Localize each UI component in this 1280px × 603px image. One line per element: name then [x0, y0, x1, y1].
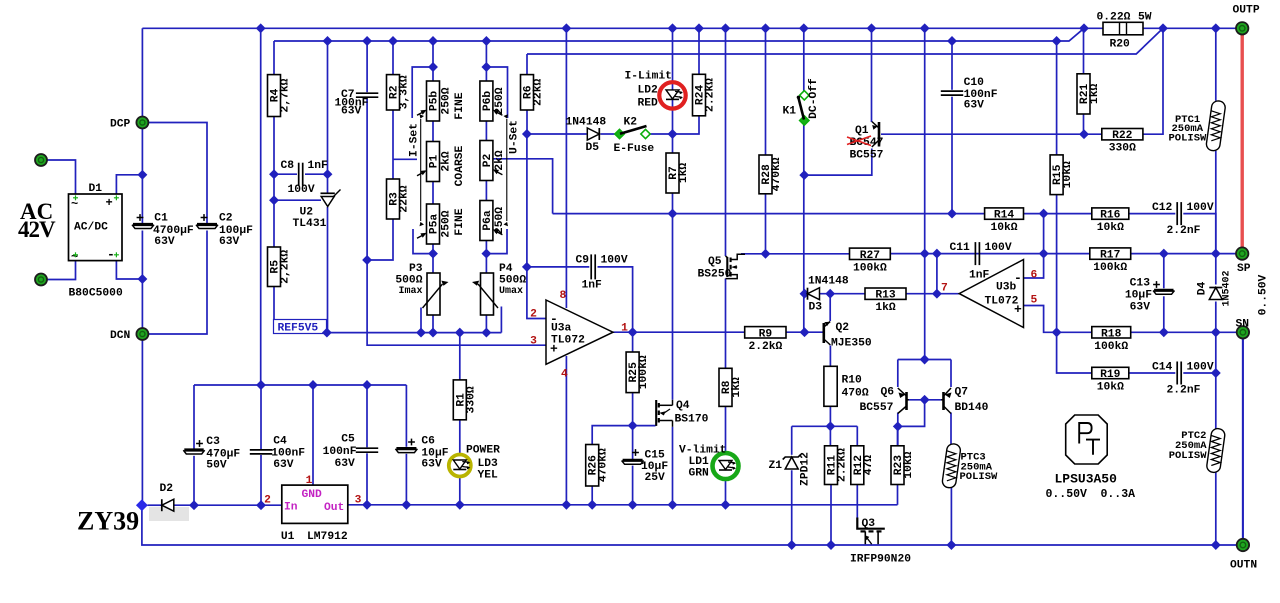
svg-text:I-Set: I-Set — [409, 123, 421, 157]
svg-text:DCN: DCN — [110, 330, 131, 342]
svg-text:2.2nF: 2.2nF — [1167, 385, 1201, 397]
svg-text:1kΩ: 1kΩ — [731, 377, 743, 398]
svg-text:0.22Ω: 0.22Ω — [1097, 12, 1131, 24]
svg-text:1N5402: 1N5402 — [1222, 270, 1233, 306]
svg-text:Imax: Imax — [398, 286, 422, 297]
svg-text:63V: 63V — [273, 459, 294, 471]
svg-text:4: 4 — [561, 369, 568, 381]
svg-text:330Ω: 330Ω — [465, 386, 477, 413]
svg-text:2: 2 — [264, 495, 271, 507]
svg-text:LD3: LD3 — [478, 458, 499, 470]
svg-text:R14: R14 — [994, 210, 1015, 222]
svg-text:+: + — [106, 196, 113, 210]
svg-text:63V: 63V — [154, 236, 175, 248]
svg-text:BD140: BD140 — [955, 402, 989, 414]
svg-text:1kΩ: 1kΩ — [875, 302, 896, 314]
svg-text:63V: 63V — [334, 458, 355, 470]
svg-text:2kΩ: 2kΩ — [441, 151, 453, 172]
svg-text:LM7912: LM7912 — [307, 531, 348, 543]
svg-text:100V: 100V — [601, 255, 628, 267]
svg-text:100kΩ: 100kΩ — [1094, 341, 1128, 353]
svg-text:1N4148: 1N4148 — [566, 117, 607, 129]
svg-text:C9: C9 — [576, 255, 590, 267]
svg-text:U3b: U3b — [996, 282, 1017, 294]
svg-text:10kΩ: 10kΩ — [903, 451, 915, 478]
svg-text:C6: C6 — [421, 436, 435, 448]
svg-text:P3: P3 — [409, 263, 423, 275]
svg-text:0..50V: 0..50V — [1046, 488, 1088, 501]
svg-text:2.2kΩ: 2.2kΩ — [837, 448, 849, 482]
svg-text:POWER: POWER — [466, 445, 500, 457]
svg-text:TL072: TL072 — [985, 296, 1019, 308]
svg-text:R13: R13 — [875, 290, 896, 302]
svg-text:5: 5 — [1031, 295, 1038, 307]
svg-text:10kΩ: 10kΩ — [1097, 222, 1124, 234]
svg-text:10μF: 10μF — [1125, 290, 1152, 302]
svg-text:63V: 63V — [1130, 302, 1151, 314]
svg-text:8: 8 — [560, 290, 567, 302]
svg-text:POLISW: POLISW — [960, 471, 999, 483]
svg-text:Q2: Q2 — [836, 322, 850, 334]
svg-text:BC547: BC547 — [850, 137, 884, 149]
svg-text:250Ω: 250Ω — [441, 210, 453, 237]
svg-text:1nF: 1nF — [582, 280, 603, 292]
svg-text:LD2: LD2 — [638, 85, 659, 97]
svg-text:C8: C8 — [281, 160, 295, 172]
svg-text:P5b: P5b — [429, 91, 441, 112]
svg-text:RED: RED — [638, 98, 659, 110]
svg-text:U-Set: U-Set — [509, 120, 521, 154]
svg-text:-: - — [107, 247, 115, 262]
svg-text:63V: 63V — [421, 459, 442, 471]
svg-text:POLISW: POLISW — [1169, 133, 1208, 145]
svg-text:In: In — [284, 502, 298, 514]
svg-text:63V: 63V — [341, 106, 362, 118]
svg-text:Umax: Umax — [499, 286, 523, 297]
svg-text:R20: R20 — [1110, 39, 1131, 51]
svg-text:~: ~ — [71, 197, 78, 211]
svg-text:Q4: Q4 — [676, 400, 690, 412]
svg-text:100V: 100V — [288, 184, 315, 196]
svg-text:ZY39: ZY39 — [77, 507, 139, 536]
svg-text:DC-Off: DC-Off — [808, 78, 820, 119]
svg-text:100V: 100V — [1187, 202, 1214, 214]
svg-text:P6a: P6a — [482, 210, 494, 231]
svg-text:P5a: P5a — [429, 214, 441, 235]
svg-text:2,2kΩ: 2,2kΩ — [280, 250, 292, 284]
svg-text:B80C5000: B80C5000 — [69, 288, 123, 300]
svg-text:100V: 100V — [1187, 362, 1214, 374]
svg-text:Out: Out — [324, 502, 344, 514]
svg-text:330Ω: 330Ω — [1109, 143, 1136, 155]
svg-text:D5: D5 — [586, 142, 600, 154]
svg-text:YEL: YEL — [478, 470, 499, 482]
svg-text:LPSU3A50: LPSU3A50 — [1055, 472, 1118, 487]
svg-text:22kΩ: 22kΩ — [533, 79, 545, 106]
svg-text:AC/DC: AC/DC — [74, 222, 108, 234]
svg-text:MJE350: MJE350 — [831, 338, 872, 350]
svg-text:TL072: TL072 — [551, 335, 585, 347]
svg-text:ZPD12: ZPD12 — [800, 452, 812, 486]
svg-text:FINE: FINE — [454, 92, 466, 119]
svg-text:Q7: Q7 — [955, 387, 969, 399]
svg-text:500Ω: 500Ω — [499, 275, 526, 287]
svg-text:2.2nF: 2.2nF — [1167, 225, 1201, 237]
svg-text:SP: SP — [1237, 263, 1251, 275]
svg-text:100kΩ: 100kΩ — [853, 262, 887, 274]
svg-text:100V: 100V — [985, 242, 1012, 254]
svg-text:2.2kΩ: 2.2kΩ — [748, 341, 782, 353]
svg-text:10kΩ: 10kΩ — [1062, 161, 1074, 188]
svg-text:BC557: BC557 — [860, 402, 894, 414]
svg-text:IRFP90N20: IRFP90N20 — [850, 554, 911, 566]
svg-text:3: 3 — [530, 336, 537, 348]
svg-text:50V: 50V — [206, 460, 227, 472]
svg-text:470kΩ: 470kΩ — [598, 448, 610, 482]
svg-text:P2: P2 — [482, 154, 494, 168]
svg-text:250Ω: 250Ω — [441, 87, 453, 114]
svg-text:LD1: LD1 — [689, 456, 710, 468]
svg-text:R9: R9 — [759, 328, 773, 340]
svg-text:R27: R27 — [860, 250, 881, 262]
svg-text:C5: C5 — [341, 434, 355, 446]
svg-text:2.2kΩ: 2.2kΩ — [705, 78, 717, 112]
svg-text:P4: P4 — [499, 263, 513, 275]
svg-text:BC557: BC557 — [850, 150, 884, 162]
svg-text:R18: R18 — [1101, 328, 1122, 340]
svg-text:K1: K1 — [783, 106, 797, 118]
svg-text:REF5V5: REF5V5 — [278, 323, 319, 335]
svg-text:470Ω: 470Ω — [842, 388, 869, 400]
svg-text:1nF: 1nF — [308, 160, 329, 172]
svg-text:U3a: U3a — [551, 323, 572, 335]
svg-text:R17: R17 — [1100, 250, 1121, 262]
svg-text:10kΩ: 10kΩ — [1097, 382, 1124, 394]
svg-text:TL431: TL431 — [293, 218, 327, 230]
svg-text:GND: GND — [302, 489, 323, 501]
svg-text:C11: C11 — [950, 242, 971, 254]
svg-text:D4: D4 — [1197, 282, 1209, 296]
svg-text:100kΩ: 100kΩ — [1093, 262, 1127, 274]
svg-text:25V: 25V — [645, 472, 666, 484]
svg-text:100nF: 100nF — [323, 446, 357, 458]
svg-text:R16: R16 — [1100, 210, 1121, 222]
svg-text:FINE: FINE — [454, 208, 466, 235]
svg-text:100kΩ: 100kΩ — [638, 355, 650, 389]
svg-text:2kΩ: 2kΩ — [494, 150, 506, 171]
svg-text:0..3A: 0..3A — [1101, 488, 1136, 501]
svg-text:C4: C4 — [273, 435, 287, 447]
svg-text:V-limit: V-limit — [679, 445, 726, 457]
svg-text:D2: D2 — [160, 483, 174, 495]
svg-text:1: 1 — [621, 323, 628, 335]
svg-text:1kΩ: 1kΩ — [1089, 84, 1101, 105]
svg-text:42V: 42V — [18, 217, 56, 242]
svg-text:POLISW: POLISW — [1169, 450, 1208, 462]
svg-text:C15: C15 — [645, 450, 666, 462]
svg-text:1kΩ: 1kΩ — [678, 163, 690, 184]
svg-text:1N4148: 1N4148 — [808, 276, 849, 288]
svg-text:Q3: Q3 — [862, 518, 876, 530]
svg-text:2,7kΩ: 2,7kΩ — [280, 78, 292, 112]
svg-text:C3: C3 — [206, 436, 220, 448]
svg-text:22kΩ: 22kΩ — [399, 185, 411, 212]
svg-text:C14: C14 — [1152, 362, 1173, 374]
svg-text:Q5: Q5 — [708, 256, 722, 268]
svg-text:C2: C2 — [219, 213, 233, 225]
svg-text:D3: D3 — [809, 302, 823, 314]
svg-text:63V: 63V — [964, 100, 985, 112]
svg-text:OUTN: OUTN — [1230, 560, 1257, 572]
svg-text:K2: K2 — [624, 117, 638, 129]
svg-text:U2: U2 — [300, 207, 314, 219]
svg-text:OUTP: OUTP — [1233, 5, 1260, 17]
svg-text:I-Limit: I-Limit — [625, 71, 672, 83]
svg-text:10kΩ: 10kΩ — [990, 222, 1017, 234]
svg-text:500Ω: 500Ω — [395, 275, 422, 287]
svg-text:0..50V: 0..50V — [1258, 274, 1270, 315]
svg-text:C12: C12 — [1152, 202, 1173, 214]
svg-text:1: 1 — [306, 475, 313, 487]
svg-text:R10: R10 — [842, 375, 863, 387]
svg-text:Q6: Q6 — [881, 387, 895, 399]
svg-text:7: 7 — [941, 283, 948, 295]
svg-text:U1: U1 — [281, 531, 295, 543]
svg-text:D1: D1 — [89, 183, 103, 195]
svg-text:P1: P1 — [429, 155, 441, 169]
svg-text:Z1: Z1 — [769, 460, 783, 472]
svg-text:BS250: BS250 — [698, 269, 732, 281]
svg-text:E-Fuse: E-Fuse — [614, 143, 655, 155]
svg-text:GRN: GRN — [689, 468, 710, 480]
svg-text:1nF: 1nF — [969, 270, 990, 282]
svg-text:63V: 63V — [219, 236, 240, 248]
svg-text:100nF: 100nF — [271, 448, 305, 460]
svg-text:C10: C10 — [964, 77, 985, 89]
svg-text:3: 3 — [355, 495, 362, 507]
svg-text:R22: R22 — [1112, 130, 1133, 142]
svg-text:47Ω: 47Ω — [863, 455, 875, 476]
svg-text:Q1: Q1 — [855, 125, 869, 137]
svg-text:BS170: BS170 — [675, 414, 709, 426]
svg-text:470kΩ: 470kΩ — [771, 157, 783, 191]
svg-text:2: 2 — [530, 309, 537, 321]
svg-text:3,3kΩ: 3,3kΩ — [399, 75, 411, 109]
svg-text:6: 6 — [1031, 270, 1038, 282]
svg-text:5W: 5W — [1138, 12, 1152, 24]
svg-text:C13: C13 — [1130, 278, 1151, 290]
svg-text:SN: SN — [1236, 319, 1250, 331]
svg-text:R19: R19 — [1100, 369, 1121, 381]
svg-text:DCP: DCP — [110, 119, 131, 131]
svg-text:P6b: P6b — [482, 91, 494, 112]
svg-text:C1: C1 — [154, 213, 168, 225]
svg-text:COARSE: COARSE — [454, 145, 466, 186]
svg-text:~: ~ — [71, 250, 78, 264]
